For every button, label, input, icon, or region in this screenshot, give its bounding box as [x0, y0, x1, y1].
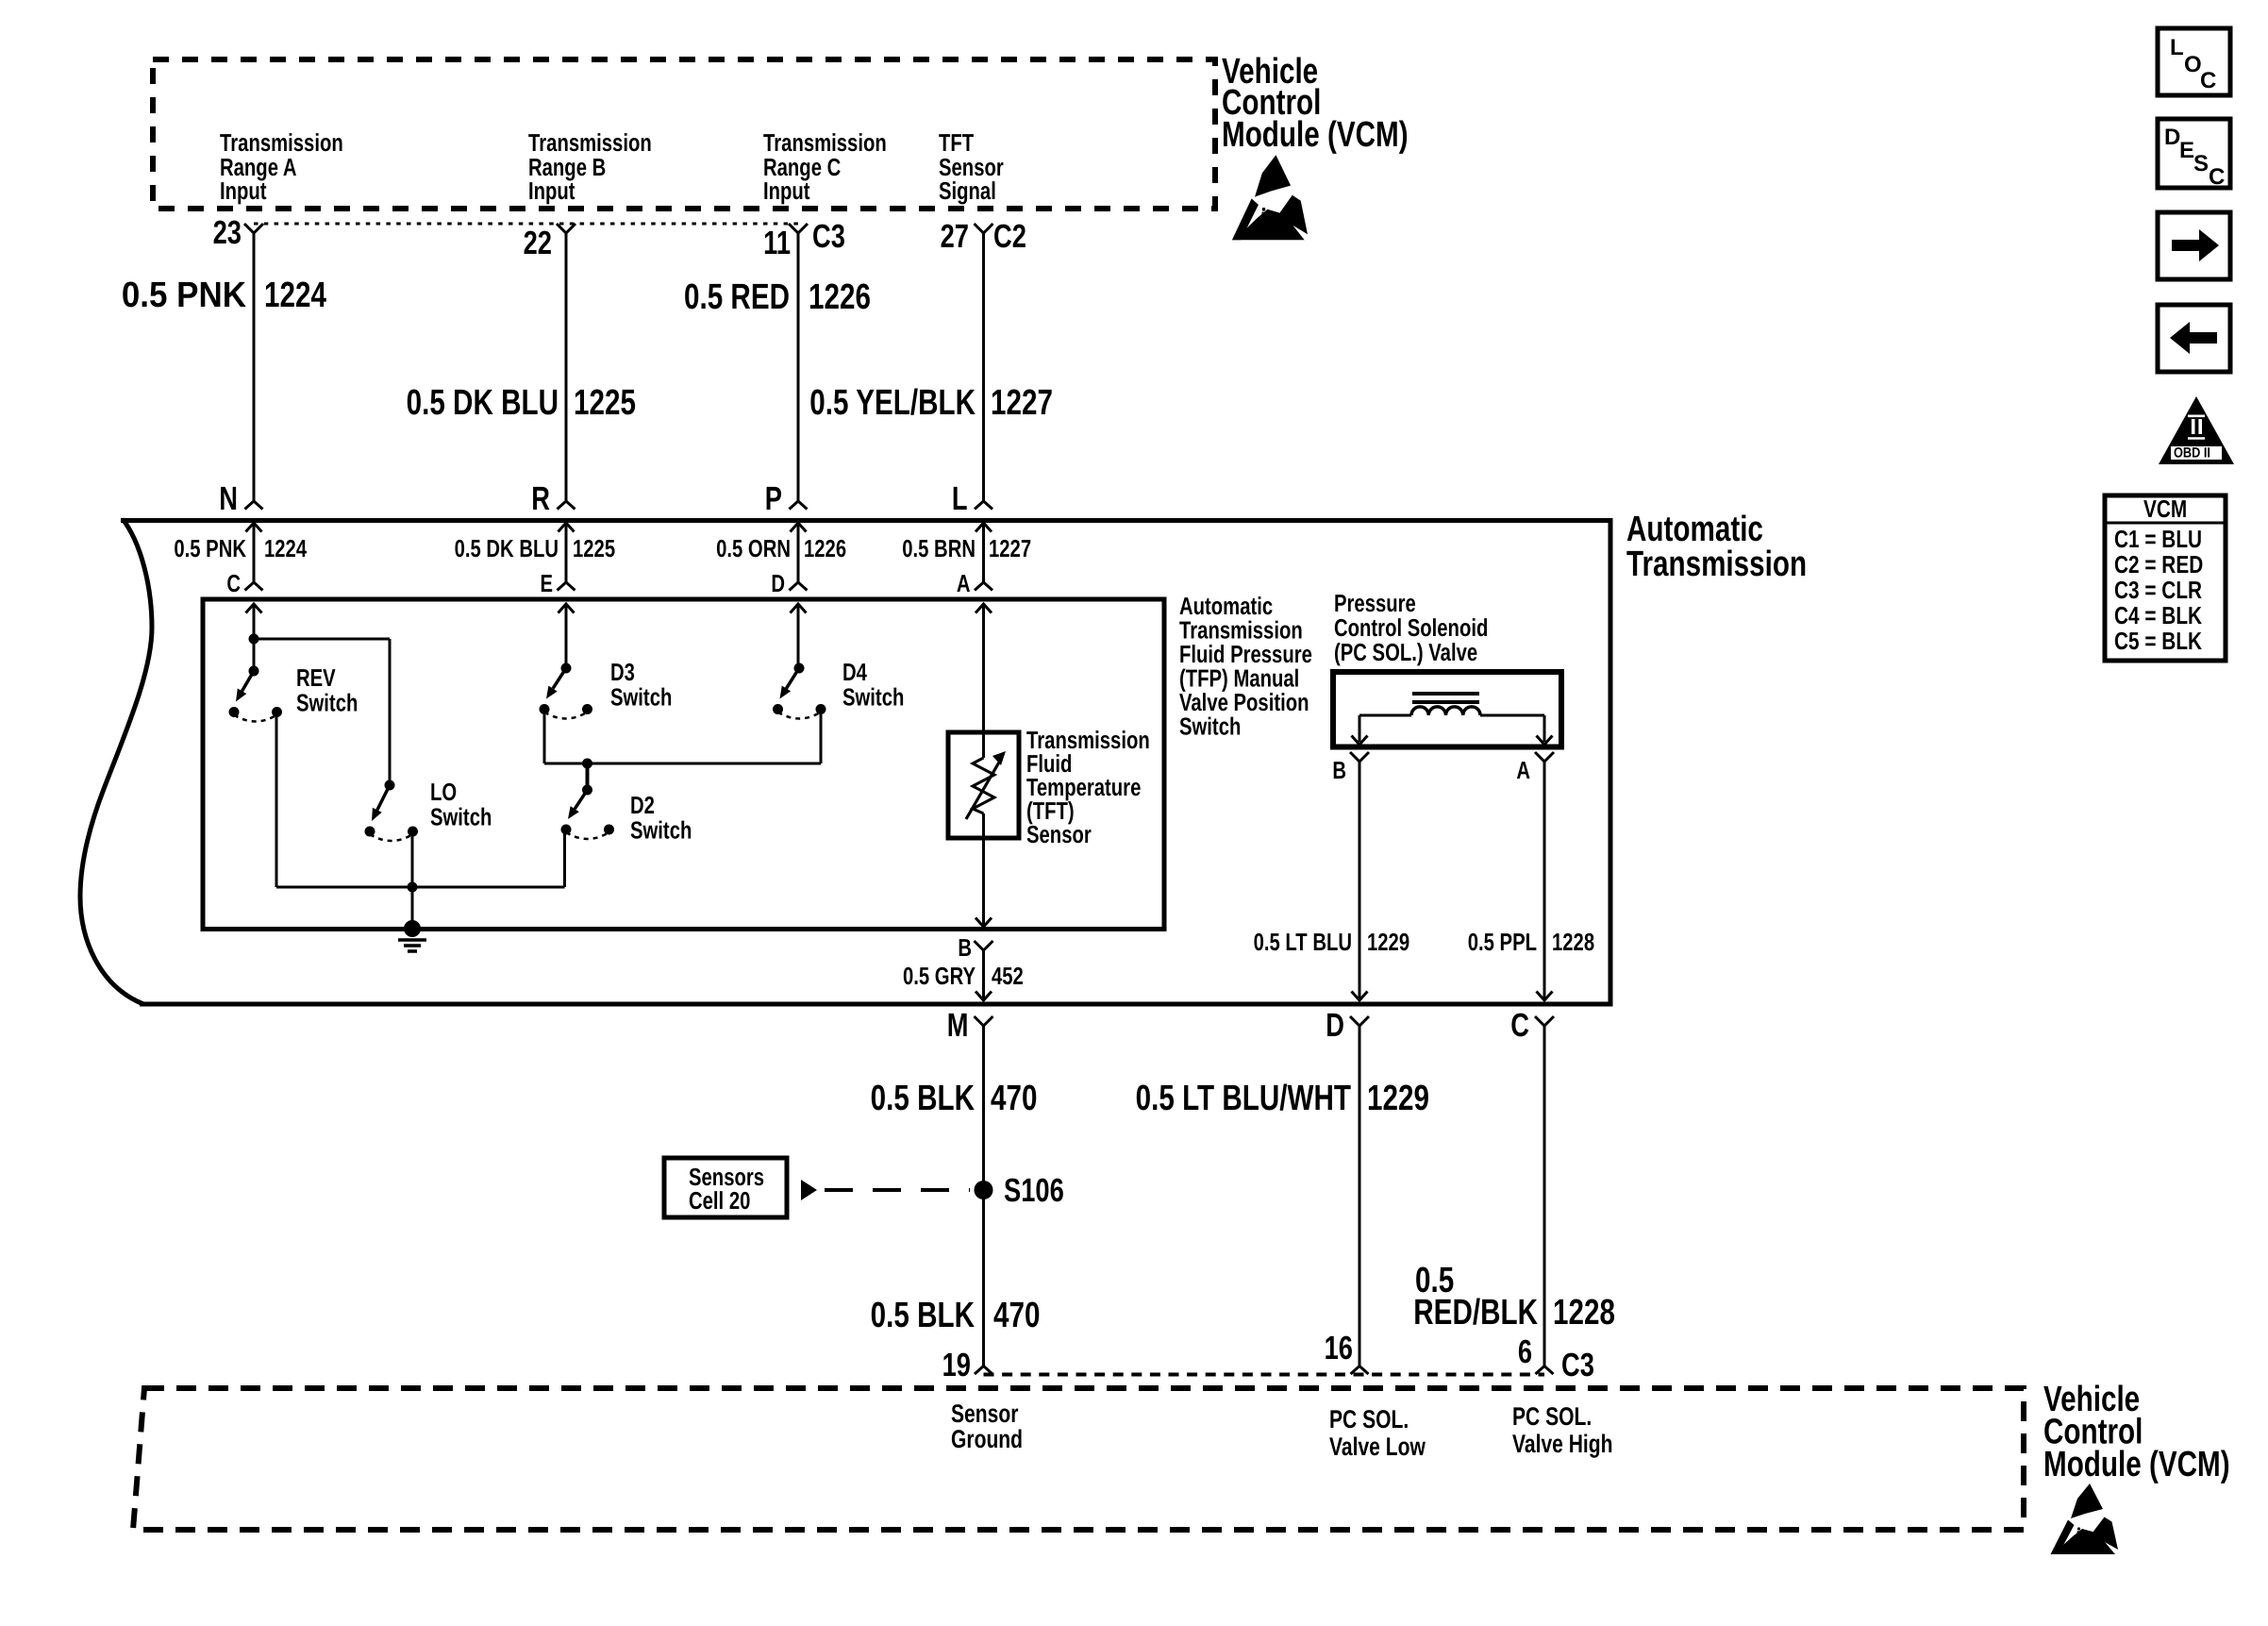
svg-text:0.5 PNK: 0.5 PNK: [122, 276, 247, 315]
svg-text:23: 23: [213, 214, 242, 251]
svg-text:A: A: [957, 569, 971, 597]
svg-text:P: P: [765, 480, 782, 517]
svg-text:0.5 RED: 0.5 RED: [684, 277, 790, 317]
svg-text:Switch: Switch: [610, 683, 672, 712]
svg-text:RED/BLK: RED/BLK: [1413, 1293, 1538, 1333]
svg-text:Switch: Switch: [630, 816, 692, 845]
svg-text:S106: S106: [1004, 1172, 1064, 1209]
svg-text:0.5 YEL/BLK: 0.5 YEL/BLK: [809, 383, 976, 423]
svg-text:470: 470: [991, 1079, 1037, 1118]
svg-text:Sensor: Sensor: [1026, 820, 1092, 848]
svg-text:E: E: [2179, 138, 2194, 163]
svg-text:1227: 1227: [991, 383, 1053, 423]
svg-text:C3: C3: [812, 218, 845, 255]
svg-text:19: 19: [942, 1347, 971, 1383]
svg-text:D4: D4: [842, 658, 867, 686]
svg-text:11: 11: [763, 225, 791, 261]
svg-text:0.5 BLK: 0.5 BLK: [871, 1079, 976, 1118]
svg-text:L: L: [952, 480, 968, 517]
svg-text:Cell 20: Cell 20: [689, 1186, 750, 1215]
svg-text:C3: C3: [1561, 1347, 1594, 1383]
svg-text:(PC SOL.) Valve: (PC SOL.) Valve: [1334, 638, 1477, 666]
svg-text:C1 = BLU: C1 = BLU: [2114, 525, 2202, 553]
svg-text:Module (VCM): Module (VCM): [2043, 1445, 2230, 1484]
svg-text:0.5 BLK: 0.5 BLK: [871, 1296, 976, 1335]
svg-text:OBD II: OBD II: [2174, 445, 2210, 461]
svg-text:Input: Input: [528, 176, 575, 205]
svg-text:LO: LO: [430, 778, 457, 806]
svg-text:C2: C2: [993, 218, 1026, 255]
svg-text:M: M: [947, 1007, 969, 1044]
svg-text:0.5 BRN: 0.5 BRN: [902, 534, 976, 562]
svg-text:C: C: [1510, 1007, 1529, 1044]
svg-text:1228: 1228: [1552, 928, 1594, 956]
svg-text:REV: REV: [296, 663, 336, 692]
svg-text:1226: 1226: [804, 534, 846, 562]
svg-text:C: C: [226, 569, 241, 597]
svg-text:C2 = RED: C2 = RED: [2114, 550, 2203, 578]
svg-text:Valve Low: Valve Low: [1329, 1433, 1426, 1461]
svg-text:Signal: Signal: [939, 176, 996, 205]
svg-text:1229: 1229: [1367, 1079, 1429, 1118]
svg-text:C4 = BLK: C4 = BLK: [2114, 601, 2202, 629]
svg-text:470: 470: [993, 1296, 1040, 1335]
svg-text:C5 = BLK: C5 = BLK: [2114, 627, 2202, 655]
svg-text:S: S: [2193, 151, 2209, 176]
svg-text:Ground: Ground: [951, 1425, 1023, 1453]
svg-text:16: 16: [1325, 1330, 1353, 1366]
svg-text:0.5 LT BLU/WHT: 0.5 LT BLU/WHT: [1136, 1079, 1351, 1118]
svg-text:0.5 ORN: 0.5 ORN: [716, 534, 791, 562]
svg-text:1228: 1228: [1553, 1293, 1615, 1333]
svg-text:N: N: [219, 480, 238, 517]
svg-text:1224: 1224: [264, 276, 326, 315]
svg-text:R: R: [531, 480, 550, 517]
svg-text:D3: D3: [610, 658, 635, 686]
svg-text:1229: 1229: [1367, 928, 1409, 956]
svg-text:D: D: [771, 569, 785, 597]
svg-text:VCM: VCM: [2143, 495, 2187, 523]
svg-text:0.5 DK BLU: 0.5 DK BLU: [455, 534, 559, 562]
svg-text:1224: 1224: [264, 534, 308, 562]
svg-text:D: D: [1326, 1007, 1344, 1044]
svg-text:C: C: [2209, 164, 2225, 190]
svg-text:Sensor: Sensor: [951, 1400, 1019, 1428]
svg-text:C3 = CLR: C3 = CLR: [2114, 576, 2202, 604]
svg-text:Switch: Switch: [430, 803, 492, 831]
svg-text:Module (VCM): Module (VCM): [1222, 115, 1409, 155]
svg-text:Switch: Switch: [296, 689, 358, 717]
svg-text:E: E: [540, 569, 553, 597]
svg-text:PC SOL.: PC SOL.: [1329, 1405, 1409, 1433]
svg-text:D2: D2: [630, 791, 655, 819]
svg-text:Input: Input: [220, 176, 267, 205]
svg-text:1225: 1225: [574, 383, 636, 423]
svg-text:0.5 GRY: 0.5 GRY: [903, 962, 976, 990]
svg-text:Switch: Switch: [842, 683, 904, 712]
svg-text:O: O: [2184, 52, 2202, 77]
svg-text:Valve High: Valve High: [1512, 1430, 1613, 1458]
svg-text:22: 22: [524, 225, 552, 261]
svg-text:1225: 1225: [573, 534, 615, 562]
svg-text:1226: 1226: [809, 277, 871, 317]
svg-text:B: B: [958, 933, 972, 962]
svg-text:D: D: [2164, 125, 2180, 150]
svg-text:452: 452: [992, 962, 1024, 990]
svg-text:Input: Input: [763, 176, 810, 205]
svg-text:6: 6: [1518, 1333, 1532, 1370]
svg-text:27: 27: [941, 218, 969, 255]
svg-text:0.5 DK BLU: 0.5 DK BLU: [407, 383, 559, 423]
svg-text:B: B: [1332, 756, 1346, 784]
svg-text:L: L: [2170, 35, 2184, 60]
svg-text:0.5 PPL: 0.5 PPL: [1468, 928, 1537, 956]
svg-text:A: A: [1516, 756, 1530, 784]
svg-text:1227: 1227: [989, 534, 1031, 562]
svg-text:0.5 PNK: 0.5 PNK: [174, 534, 246, 562]
svg-text:Automatic: Automatic: [1626, 510, 1763, 549]
svg-text:Switch: Switch: [1179, 712, 1241, 741]
svg-text:Transmission: Transmission: [1626, 545, 1807, 584]
svg-text:PC SOL.: PC SOL.: [1512, 1402, 1592, 1431]
svg-text:0.5 LT BLU: 0.5 LT BLU: [1254, 928, 1352, 956]
svg-text:C: C: [2200, 68, 2216, 93]
